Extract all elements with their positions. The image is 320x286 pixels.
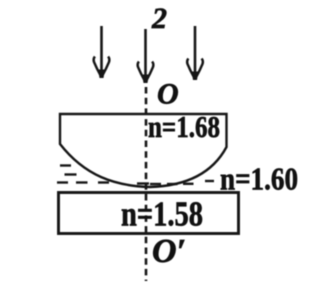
incident ray arrow 3 (right)	[187, 26, 203, 80]
svg-text:n=1.58: n=1.58	[121, 195, 203, 234]
oil film dash row 3 (left of axis)	[57, 181, 109, 183]
flat glass plate outline	[59, 193, 239, 234]
oil film dash row 3 (crossing axis, right side)	[137, 181, 214, 184]
oil film dash row 1 (left)	[60, 164, 71, 166]
svg-text:O′: O′	[152, 233, 186, 270]
plano-convex lens outline	[60, 114, 227, 187]
incident ray arrow 1 (left)	[94, 26, 110, 78]
svg-text:2: 2	[151, 2, 167, 35]
svg-text:O: O	[157, 78, 179, 111]
incident ray arrow 2 (middle, along axis)	[138, 29, 154, 83]
optical axis O-O' (dashed vertical line)	[145, 87, 148, 281]
svg-text:n=1.68: n=1.68	[148, 109, 220, 144]
oil film dash row 2 (left)	[65, 173, 77, 175]
